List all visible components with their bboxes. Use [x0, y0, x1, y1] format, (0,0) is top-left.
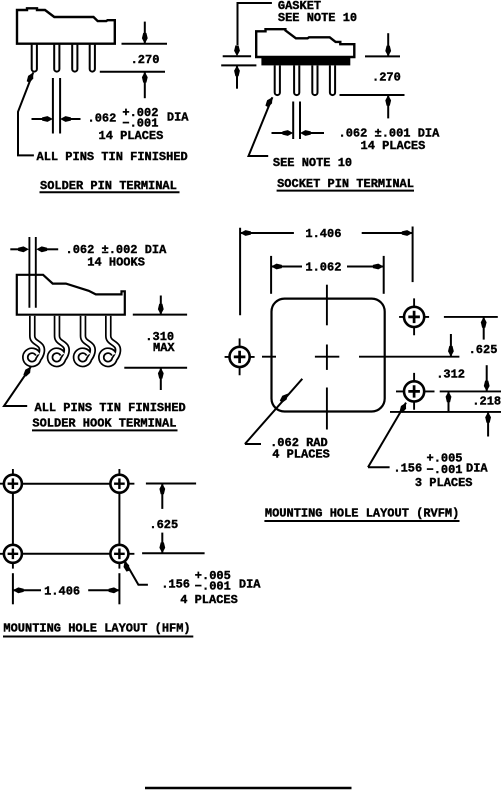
- svg-text:.062: .062: [88, 111, 117, 125]
- svg-text:−.001: −.001: [427, 463, 463, 477]
- svg-text:MAX: MAX: [153, 341, 175, 355]
- mounting hole bottom-right (RVFM): [396, 373, 435, 410]
- svg-text:4 PLACES: 4 PLACES: [272, 447, 330, 461]
- svg-text:1.062: 1.062: [305, 261, 341, 275]
- solder pin 1: [32, 45, 37, 72]
- svg-text:ALL PINS TIN FINISHED: ALL PINS TIN FINISHED: [35, 401, 186, 415]
- mounting hole bottom-right (HFM): [110, 545, 134, 569]
- svg-text:.625: .625: [469, 343, 498, 357]
- horizontal centerline: [262, 356, 459, 358]
- rectangle connecting holes: [13, 484, 120, 554]
- mounting hole left (RVFM): [225, 338, 255, 375]
- svg-text:14 PLACES: 14 PLACES: [361, 139, 426, 153]
- svg-text:−.001: −.001: [122, 116, 158, 130]
- relay body outline (socket pin view): [256, 29, 354, 57]
- svg-text:.270: .270: [372, 71, 401, 85]
- dimension 1.062 (RVFM): [271, 256, 384, 294]
- hook pin 2: [50, 316, 67, 364]
- mounting hole top-right (HFM): [110, 469, 134, 493]
- svg-text:3 PLACES: 3 PLACES: [415, 476, 473, 490]
- relay body outline (hook view): [17, 275, 125, 315]
- svg-text:SEE NOTE 10: SEE NOTE 10: [278, 11, 357, 25]
- dimension .312 arrows (RVFM): [450, 334, 452, 356]
- relay body outline (solder pin view): [17, 8, 115, 43]
- dimension .062 hook wire dia: [10, 248, 58, 250]
- svg-text:DIA: DIA: [466, 462, 488, 476]
- svg-text:MOUNTING HOLE LAYOUT (RVFM): MOUNTING HOLE LAYOUT (RVFM): [265, 506, 459, 520]
- dimension .625 arrows (RVFM): [483, 317, 485, 339]
- socket pin 4: [330, 66, 335, 96]
- svg-text:.625: .625: [149, 518, 178, 532]
- solder pin 4: [90, 45, 95, 72]
- socket pin 2: [294, 66, 299, 96]
- flange outline (rounded square): [272, 299, 385, 412]
- svg-text:.270: .270: [131, 53, 160, 67]
- dimension .270 (solder pin view): [100, 22, 167, 99]
- dimension .062 pin dia (solder pin view): [32, 78, 81, 134]
- leader: see note 10 (socket pin view): [249, 97, 273, 156]
- svg-text:SEE NOTE 10: SEE NOTE 10: [273, 156, 352, 170]
- svg-text:14 PLACES: 14 PLACES: [99, 129, 164, 143]
- leader: gasket label with thickness arrows: [238, 3, 272, 45]
- leader: all pins tin finished (hook view): [4, 367, 31, 406]
- svg-text:14 HOOKS: 14 HOOKS: [87, 255, 145, 269]
- dimension 1.406 (HFM): [13, 573, 120, 604]
- svg-text:.156: .156: [161, 577, 190, 591]
- svg-text:DIA: DIA: [167, 111, 189, 125]
- svg-text:MOUNTING HOLE LAYOUT (HFM): MOUNTING HOLE LAYOUT (HFM): [3, 622, 190, 636]
- leader: .062 RAD corner radius: [245, 379, 302, 444]
- svg-text:ALL PINS TIN FINISHED: ALL PINS TIN FINISHED: [37, 150, 188, 164]
- bottom separator rule: [145, 787, 352, 789]
- svg-text:SOCKET PIN TERMINAL: SOCKET PIN TERMINAL: [277, 177, 414, 191]
- dimension 1.406 (RVFM): [240, 227, 413, 316]
- svg-text:SOLDER PIN TERMINAL: SOLDER PIN TERMINAL: [40, 179, 177, 193]
- dimension .270 (socket pin view): [340, 33, 405, 118]
- right-side reference lines A C D: [390, 317, 501, 412]
- svg-text:1.406: 1.406: [44, 585, 80, 599]
- leader: .156 hole dia (HFM): [125, 561, 148, 585]
- svg-text:DIA: DIA: [239, 577, 261, 591]
- svg-text:.156: .156: [393, 462, 422, 476]
- hook pin 4: [101, 316, 118, 364]
- solder pin 2: [54, 45, 59, 72]
- vertical centerline: [326, 285, 328, 430]
- svg-text:SOLDER HOOK TERMINAL: SOLDER HOOK TERMINAL: [32, 417, 176, 431]
- mounting hole top-left (HFM): [0, 469, 22, 493]
- hook pin 3: [76, 316, 93, 364]
- mounting hole bottom-left (HFM): [0, 545, 22, 569]
- hook pin 1: [25, 316, 118, 364]
- socket pin 3: [312, 66, 317, 96]
- svg-text:1.406: 1.406: [305, 227, 341, 241]
- dimension .062 socket pin dia: [272, 102, 325, 140]
- leader: .156 hole dia (RVFM): [368, 403, 406, 468]
- dimension .625 (HFM): [142, 484, 205, 554]
- dimension .310 MAX: [124, 296, 187, 391]
- dimension .218 arrow (RVFM): [487, 412, 489, 436]
- socket pin 1: [275, 66, 280, 96]
- leader: all pins tin finished (solder pin view): [18, 73, 34, 156]
- svg-text:−.001: −.001: [195, 579, 231, 593]
- solder pin 3: [72, 45, 77, 72]
- gasket (filled): [261, 56, 350, 65]
- mounting hole top-right (RVFM): [399, 298, 429, 335]
- svg-text:4 PLACES: 4 PLACES: [180, 593, 238, 607]
- svg-text:.312: .312: [436, 368, 465, 382]
- svg-text:.218: .218: [472, 395, 501, 409]
- hook wire extension lines through body: [28, 237, 30, 308]
